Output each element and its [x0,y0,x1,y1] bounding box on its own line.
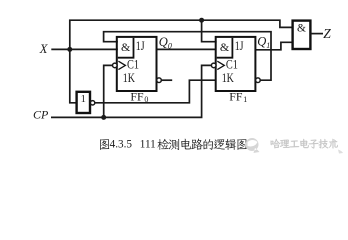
wire: CP branch up to FF0 C1 input [104,65,113,117]
gate: FF0 embedded AND block partition [118,38,134,58]
gate: FF1 embedded AND block partition [217,38,233,58]
caption: figure number and title [100,139,109,150]
wire: X feed-forward over top to AND gate input [70,20,293,49]
flip-flop FF1: JK flip-flop box [216,37,256,91]
flip-flop FF0: JK flip-flop box [117,37,157,91]
pin: FF0 Q-bar output negation bubble [157,78,162,83]
svg-text:Q0: Q0 [159,35,172,50]
svg-text:111: 111 [140,139,156,151]
wire: X branch from top rail down to FF1 1J AND input [202,20,217,42]
wire: FF0 Q-bar output stub [162,79,173,81]
svg-text:1: 1 [81,94,86,105]
svg-text:CP: CP [33,107,49,121]
wire: Q0 output of FF0 to FF1 1J AND input [157,48,216,50]
pin: FF1 dynamic clock edge triangle [217,61,224,69]
pin: FF0 dynamic clock edge triangle [118,61,125,69]
wire: inverter output (NOT X) to FF1 1K input [95,80,216,103]
svg-text:&: & [121,40,131,54]
svg-text:1J: 1J [136,38,145,53]
node: junction on X line (to top rail and to inverter) [67,47,72,52]
svg-text:FF: FF [130,90,144,104]
wire: X down to inverter input [70,49,77,103]
pin: FF1 clock negation bubble [211,63,216,68]
wire: X input line into FF0 1J AND input [51,48,118,50]
wire: CP clock line with rise to FF1 C1 input [51,65,212,117]
node: junction on CP line for FF0 clock branch [101,115,106,120]
node: junction of X top rail and FF1 J-input branch [199,18,204,23]
watermark logo blob [246,138,260,153]
watermark faint mark [338,150,343,154]
pin: FF0 clock negation bubble [113,63,118,68]
svg-text:Z: Z [323,26,331,41]
svg-text:4.3.5: 4.3.5 [110,139,133,151]
svg-text:1J: 1J [235,38,244,53]
wire: AND gate output to Z [311,33,324,35]
watermark: university name [271,139,281,148]
svg-text:0: 0 [144,95,148,104]
gate: inverter "1" (produces NOT X) [77,92,90,113]
svg-text:1K: 1K [222,70,235,85]
wire: feedback from FF1 Q-bar output up over the top to FF0 1J AND input [104,32,271,80]
svg-text:X: X [39,42,49,56]
svg-text:1: 1 [243,95,247,104]
svg-text:&: & [220,40,230,54]
gate: output AND gate U1 [293,21,311,49]
pin: FF1 Q-bar output negation bubble [256,78,261,83]
svg-text:FF: FF [229,90,243,104]
svg-text:&: & [297,23,306,35]
svg-text:1K: 1K [123,70,136,85]
pin: inverter output negation bubble [90,101,94,105]
wire: Q1 output of FF1 to AND gate lower input [256,42,293,50]
svg-text:Q1: Q1 [257,35,270,50]
